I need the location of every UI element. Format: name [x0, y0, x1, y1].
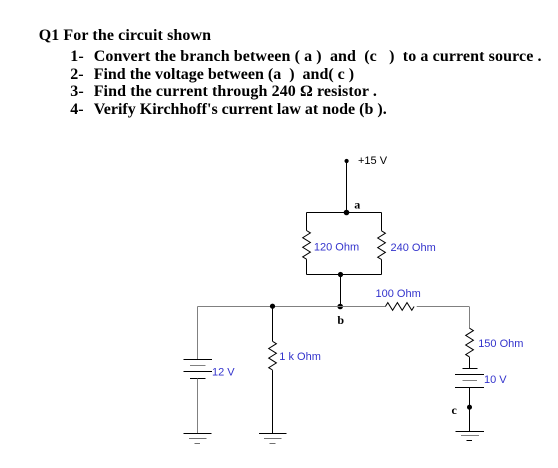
ground right line 1 [456, 431, 485, 433]
resistor R 1 kOhm [269, 341, 277, 370]
node a [344, 210, 350, 216]
resistor R 120 Ohm [303, 231, 311, 260]
junction dot 1k branch [270, 304, 275, 309]
wire parallel box right upper lead [381, 213, 383, 231]
svg-text:120 Ohm: 120 Ohm [314, 241, 359, 253]
resistor R 100 Ohm [385, 303, 414, 311]
wire bus left segment [198, 306, 386, 308]
question text line 5 [70, 102, 386, 118]
wire left branch vertical [197, 307, 199, 360]
svg-text:a: a [354, 198, 360, 212]
wire 150 Ohm to battery 10V [469, 357, 471, 368]
ground left line 2 [189, 438, 207, 440]
wire parallel box left upper lead [306, 213, 308, 231]
question text line 2 [70, 49, 541, 65]
ground left line 1 [184, 433, 212, 435]
wire box bottom to node b [340, 275, 342, 307]
svg-text:150 Ohm: 150 Ohm [478, 338, 523, 350]
question text line 1 [39, 28, 211, 44]
wire right branch upper lead [469, 307, 471, 329]
ground 1k line 1 [259, 433, 287, 435]
node b [337, 304, 343, 310]
ground right line 2 [461, 435, 479, 437]
wire parallel box top [307, 212, 382, 214]
svg-text:240 Ohm: 240 Ohm [391, 242, 436, 254]
battery V2 10V plate long bottom [455, 387, 484, 389]
wire bus right segment [417, 306, 470, 308]
svg-text:+15 V: +15 V [358, 155, 388, 167]
battery V2 10V plate short top [463, 368, 478, 370]
node +15V terminal dot [345, 159, 349, 163]
svg-text:1 k Ohm: 1 k Ohm [279, 351, 321, 363]
ground right line 3 [467, 440, 473, 442]
battery V1 12V plate short bottom [190, 378, 206, 380]
question text line 3 [70, 67, 354, 83]
svg-text:10 V: 10 V [484, 374, 507, 386]
wire battery 10V to ground [469, 388, 471, 432]
resistor R 150 Ohm [466, 328, 474, 357]
svg-text:12 V: 12 V [212, 366, 235, 378]
ground 1k line 2 [264, 438, 282, 440]
battery V2 10V plate long [455, 374, 484, 376]
svg-text:b: b [337, 313, 344, 327]
wire +15V to node a [346, 163, 348, 213]
wire parallel box bottom [307, 274, 382, 276]
wire battery 12V to ground [197, 379, 199, 434]
battery V1 12V plate long top [184, 359, 213, 361]
svg-text:c: c [452, 403, 458, 417]
wire 1k lower lead [272, 370, 274, 433]
ground 1k line 3 [270, 443, 276, 445]
battery V1 12V plate short gray [190, 365, 206, 367]
battery V1 12V plate long mid [184, 371, 213, 373]
wire parallel box right lower lead [381, 260, 383, 275]
wire parallel box left lower lead [306, 259, 308, 274]
resistor R 240 Ohm [378, 231, 386, 260]
question text line 4 [70, 84, 377, 100]
wire 1k upper lead [272, 307, 274, 342]
junction dot box bottom [338, 272, 343, 277]
svg-text:100 Ohm: 100 Ohm [376, 288, 421, 300]
ground left line 3 [195, 443, 201, 445]
battery V2 10V plate short gray [463, 380, 478, 382]
node c [467, 405, 472, 410]
